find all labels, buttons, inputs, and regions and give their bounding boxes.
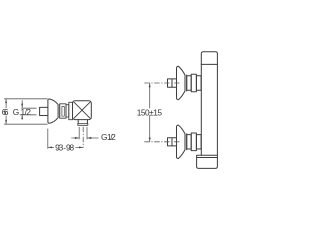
svg-text:93 - 98: 93 - 98 [55, 143, 74, 153]
svg-text:G 1/2: G 1/2 [101, 132, 116, 142]
svg-text:66: 66 [2, 107, 9, 117]
svg-text:G 1/2: G 1/2 [13, 107, 32, 117]
svg-text:150±15: 150±15 [137, 107, 163, 117]
